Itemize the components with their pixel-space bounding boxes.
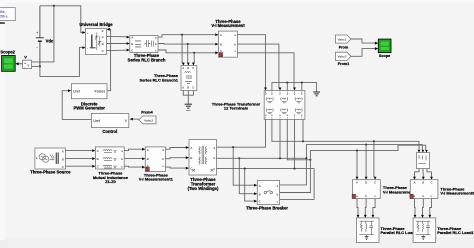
svg-text:Z1-Z0: Z1-Z0 [105,179,116,184]
svg-text:Parallel RLC Load1: Parallel RLC Load1 [437,230,474,235]
from tag From4 (Vabc2) [139,116,156,124]
svg-text:From: From [339,46,349,50]
svg-text:Vabc1: Vabc1 [338,37,347,41]
wire RLC branch1 bottoms merge to ground [183,91,193,96]
goto marker (red) inside V-I Measurement2 [352,194,355,198]
svg-text:V: V [24,55,27,60]
svg-text:-: - [24,65,25,69]
junction at Vdc minus [39,65,41,67]
svg-text:B: B [190,156,192,160]
svg-text:Parallel RLC Load: Parallel RLC Load [381,230,416,235]
svg-text:C: C [192,66,194,70]
block Three-Phase Series RLC Branch [130,36,158,53]
svg-text:C: C [62,165,64,169]
wire Control Uref output to PWM Uref input [62,91,91,120]
svg-text:A: A [220,33,222,37]
wire a: transformer two-windings a up to 12T terminal a2 [217,119,266,147]
DC voltage source Vdc [36,6,44,67]
wire bridge C to RLC branch C [107,49,127,51]
wire V-I2 a to parallel RLC load A [357,199,358,216]
svg-text:PWM Generator: PWM Generator [73,106,105,111]
svg-text:12 Terminals: 12 Terminals [224,105,249,110]
wire PWM pulses to bridge g input [107,29,111,90]
svg-text:b: b [162,157,164,161]
svg-text:(Two Windings): (Two Windings) [188,186,219,191]
svg-text:Vdc: Vdc [46,39,54,44]
svg-text:50e,: 50e, [0,10,6,14]
svg-text:B: B [62,157,64,161]
wire V-I2 b to parallel RLC load B [364,199,367,216]
junction wire c to breaker C drop [244,168,246,170]
junction phase A tap to RLC branch1 [181,34,183,36]
junction bus C to V-I measurement2 A [356,150,358,152]
wire bus C drop to V-I measurement2 A [356,151,358,177]
wire drop to breaker B [239,158,254,193]
svg-text:b: b [234,42,236,46]
svg-text:V-I Measurement1: V-I Measurement1 [139,177,174,182]
svg-text:From4: From4 [141,111,153,115]
svg-text:Scope2: Scope2 [0,50,15,55]
block Three-Phase Mutual Inductance Z1-Z0 [95,147,124,169]
goto marker (red) inside V-I Measurement [219,53,222,57]
annotation note top-left [0,8,15,21]
wire b: transformer two-windings b east run [217,157,307,159]
svg-text:b: b [121,157,123,161]
wire riser A: breaker out a up to bus B [280,145,423,185]
svg-text:From1: From1 [338,62,350,66]
ground at transformer neutral [313,92,320,96]
svg-text:C: C [259,200,261,204]
block Three-Phase V-I Measurement3 [410,180,438,199]
wire phase A down to RLC branch1 [182,35,183,63]
svg-text:Vabc2: Vabc2 [338,55,347,59]
from tag From1 (Vabc2) [335,52,351,60]
svg-text:C: C [431,181,433,185]
junction bus A to V-I measurement2 C [373,140,375,142]
svg-text:B: B [187,66,189,70]
junction neutral at B2 [286,82,288,84]
svg-text:B: B [259,192,261,196]
block Three-Phase Breaker [257,180,279,204]
svg-text:+: + [36,156,38,160]
svg-text:Scope: Scope [379,54,390,58]
wire V-I3 a to parallel RLC load1 A [414,199,417,216]
wire source A to mutual inductance A [66,150,93,152]
block Three-Phase V-I Measurement1 [145,147,165,172]
wire Vdc minus bottom route to bridge - [40,48,83,77]
wire transformer neutral tie bus [272,83,317,92]
svg-text:Universal Bridge: Universal Bridge [79,22,113,27]
junction 12T c1 joins wire c [293,168,295,170]
svg-text:C: C [374,181,376,185]
wire bus A drop to V-I measurement2 C [373,141,375,177]
wire 12T terminal b2 down and east [287,119,310,159]
svg-text:A: A [414,181,416,185]
goto marker (red) inside V-I Measurement1 [146,167,149,171]
ground under RLC branch1 [185,104,192,110]
svg-text:Vabc2: Vabc2 [144,118,153,122]
svg-text:206 e.: 206 e. [0,15,8,19]
block Three-Phase Transformer 12 Terminals [264,91,305,120]
block Three-Phase Parallel RLC Load1 [413,218,436,243]
wire top rail from Vdc+ to bridge + [40,6,83,33]
wire phase B down to RLC branch1 [187,44,190,63]
wire mutual inductance b to V-I measurement1 B [124,158,142,160]
svg-text:b: b [365,194,367,198]
wire Vdc minus to V-measure - input [32,65,40,67]
scope Scope2 [2,56,16,72]
wire c: transformer two-windings c east run [217,169,315,200]
svg-text:A: A [259,184,261,188]
svg-text:v: v [27,64,29,68]
junction phase C tap to RLC branch1 [193,52,195,54]
wire From4 to Control V input [133,118,139,120]
wire V-I3 b to parallel RLC load1 B [422,199,425,216]
svg-text:B: B [422,181,424,185]
svg-text:b: b [155,42,157,46]
svg-text:A: A [97,149,99,153]
svg-text:V-I Measurement3: V-I Measurement3 [440,191,474,196]
svg-text:Series RLC Branch1: Series RLC Branch1 [140,77,179,82]
wire RLC branch2 out1 to V-I measurement3 A [415,169,420,177]
wire V-I c to transformer terminal C1 [237,53,294,88]
wire phase C down to RLC branch1 [192,53,195,63]
junction phase B tap to RLC branch1 [187,43,189,45]
wire RLC branch2 out3 to V-I measurement3 C [427,169,432,177]
svg-text:B: B [147,157,149,161]
junction 12T b1 joins wire b [279,157,281,159]
svg-text:Pulses: Pulses [95,89,106,93]
svg-text:A: A [62,149,64,153]
svg-text:+: + [36,31,38,35]
wire V-I3 c to parallel RLC load1 C [430,199,432,216]
block Three-Phase V-I Measurement [219,31,238,57]
wire V-I1 c to transformer two-windings C [165,167,186,168]
svg-text:Three-Phase Source: Three-Phase Source [30,170,71,175]
svg-text:A: A [190,146,192,150]
svg-text:C: C [190,167,192,171]
wire V-measure output to Scope2 with arrow [18,63,23,65]
wire neutral drop to C2 [301,83,303,91]
voltage measurement block [23,60,32,69]
junction b2 run joins riser B [309,159,311,161]
wire mutual inductance a to V-I measurement1 A [124,149,142,150]
wire bus A from 12T terminal a1 east to RLC branch2 [272,119,419,150]
wire bus B drop to V-I measurement2 B [365,145,367,177]
junction wire a to breaker A drop [232,146,234,148]
svg-text:b: b [276,192,278,196]
wire RLC branch a to V-I measurement A [158,35,216,37]
svg-text:A: A [356,181,358,185]
svg-text:B: B [187,86,189,90]
svg-text:Control: Control [102,129,117,134]
wire V-I1 a to transformer two-windings A [165,148,186,150]
wire neutral drop to B2 [286,83,288,91]
svg-text:g: g [102,28,104,32]
wire RLC branch c to V-I measurement C [158,50,216,53]
block Universal Bridge [85,28,106,54]
wire source B to mutual inductance B [66,158,93,160]
wire riser B: breaker out b up to bus C [280,145,426,192]
wire RLC branch b to V-I measurement B [158,43,216,46]
svg-text:B: B [102,42,104,46]
junction bus B to V-I measurement2 B [365,144,367,146]
svg-text:C: C [131,48,133,52]
from tag From (Vabc1) [335,35,351,43]
svg-text:B: B [220,42,222,46]
wire V-I2 c to parallel RLC load C [373,199,375,216]
wire mutual inductance c to V-I measurement1 C [124,165,142,168]
wire V-I1 b to transformer two-windings B [165,158,186,159]
junction top rail tap [53,5,55,7]
block Discrete PWM Generator [71,84,107,99]
wire From1 to Scope input 2 [351,49,375,57]
wire drop to breaker C [245,169,255,202]
svg-text:Three-Phase Breaker: Three-Phase Breaker [246,205,288,210]
svg-text:Uref: Uref [73,89,80,93]
wire 12T terminal c1 down [294,119,296,168]
block Three-Phase Transformer (Two Windings) [189,140,217,176]
block Three-Phase V-I Measurement2 [353,180,381,199]
wire source C to mutual inductance C [66,165,93,167]
svg-text:B: B [365,181,367,185]
svg-text:A: A [131,36,133,40]
block Three-Phase Parallel RLC Load [356,218,379,243]
junction wire b joins riser A [305,157,307,159]
wire V-I a to transformer terminal A1 [237,35,265,88]
block Control subsystem [91,114,128,128]
wire 12T terminal b1 down [279,119,281,158]
wire tap from top rail to V-measure + input [32,6,54,62]
svg-text:b: b [422,194,424,198]
block Three-Phase Series RLC branch2 (small, top right) [417,153,430,169]
svg-text:B: B [97,157,99,161]
svg-text:C: C [97,165,99,169]
wire bridge B to RLC branch B [107,43,127,45]
annotation label fragment [0,22,5,24]
scope Scope [378,39,391,53]
block Three-Phase Series RLC Branch1 [181,66,197,91]
wire From to Scope input 1 [351,39,375,43]
svg-text:+: + [87,31,89,35]
svg-text:Series RLC Branch: Series RLC Branch [128,57,166,62]
svg-text:b: b [213,156,215,160]
wire drop to breaker A [233,147,254,185]
junction wire b to breaker B drop [238,157,240,159]
block Three-Phase Source [35,148,66,169]
svg-text:A: A [182,66,184,70]
svg-text:C: C [192,86,194,90]
svg-text:Uref: Uref [93,119,100,123]
wire V-I b to transformer terminal B1 [237,44,280,88]
junction neutral at C2 [301,82,303,84]
svg-text:B: B [131,42,133,46]
wire RLC branch2 out2 to V-I measurement3 B [422,169,424,177]
wire 12T terminal c2 down to bus A [302,119,304,141]
wire bridge A to RLC branch A [107,35,127,37]
svg-text:A: A [182,86,184,90]
goto marker (red) inside V-I Measurement3 [410,194,413,198]
svg-text:A: A [147,148,149,152]
junction 12T c2 joins bus A [302,140,304,142]
svg-text:V-I Measurement: V-I Measurement [211,23,245,28]
svg-text:-: - [87,47,88,51]
